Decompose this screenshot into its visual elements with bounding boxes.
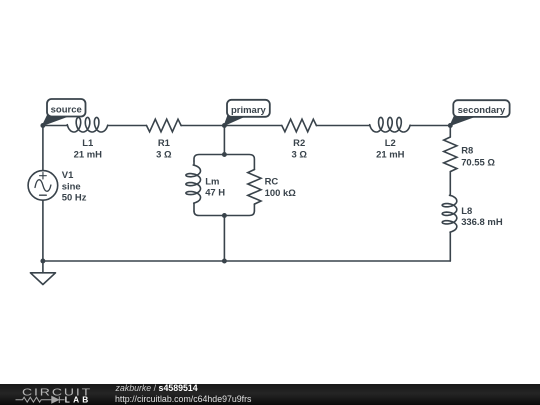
junction dot parallel bottom xyxy=(222,213,227,218)
wire R1 to primary node xyxy=(181,125,224,127)
svg-text:sine: sine xyxy=(62,181,81,192)
svg-text:L2: L2 xyxy=(385,138,396,149)
wire parallel block bottom rail xyxy=(194,211,254,216)
wire V1 to ground rail xyxy=(42,200,44,261)
wire L2 to secondary node xyxy=(410,125,450,127)
wire primary node down to parallel block xyxy=(223,126,225,155)
label R8 value xyxy=(461,146,495,169)
svg-text:source: source xyxy=(51,105,82,116)
label V1 value xyxy=(62,170,87,204)
label L8 value xyxy=(461,206,503,228)
wire secondary node down to R8 xyxy=(449,126,451,138)
junction dot primary node xyxy=(222,123,227,128)
svg-text:RC: RC xyxy=(265,177,279,188)
node label source xyxy=(42,99,85,126)
svg-text:zakburke / s4589514: zakburke / s4589514 xyxy=(115,383,198,393)
resistor R1 xyxy=(147,119,182,132)
wire parallel block to bottom rail xyxy=(223,216,225,262)
svg-text:R8: R8 xyxy=(461,146,473,157)
svg-text:primary: primary xyxy=(231,105,267,116)
label L2 value xyxy=(376,138,405,160)
node label secondary xyxy=(450,100,509,125)
wire R2 to L2 xyxy=(316,125,369,127)
svg-text:LAB: LAB xyxy=(65,394,92,404)
ground xyxy=(30,261,55,285)
resistor RC xyxy=(248,170,261,205)
wire L1 to R1 xyxy=(108,125,147,127)
svg-text:21 mH: 21 mH xyxy=(74,149,103,160)
svg-text:L1: L1 xyxy=(82,138,93,149)
junction dot bottom rail center xyxy=(222,259,227,264)
svg-text:http://circuitlab.com/c64hde97: http://circuitlab.com/c64hde97u9frs xyxy=(115,394,252,404)
svg-text:R2: R2 xyxy=(293,138,305,149)
resistor R8 xyxy=(444,137,457,172)
svg-text:47 H: 47 H xyxy=(205,188,225,199)
CircuitLab logo resistor-diode line xyxy=(16,396,65,403)
junction dot source node xyxy=(40,123,45,128)
svg-text:3 Ω: 3 Ω xyxy=(291,149,307,160)
svg-text:3 Ω: 3 Ω xyxy=(156,149,172,160)
label R1 value xyxy=(156,138,172,160)
svg-text:secondary: secondary xyxy=(458,105,506,116)
svg-text:21 mH: 21 mH xyxy=(376,149,405,160)
inductor L1 xyxy=(67,117,107,132)
node label primary xyxy=(224,100,270,126)
voltage source V1 xyxy=(28,171,58,201)
svg-text:70.55 Ω: 70.55 Ω xyxy=(461,157,495,168)
label L1 value xyxy=(74,138,103,160)
wire R8 to L8 xyxy=(449,172,451,196)
label Lm value xyxy=(205,176,225,198)
CircuitLab logo CIRCUIT xyxy=(22,386,92,398)
resistor R2 xyxy=(282,119,317,132)
svg-text:Lm: Lm xyxy=(205,176,219,187)
junction dot ground node xyxy=(40,259,45,264)
wire primary node to R2 xyxy=(224,125,281,127)
label RC value xyxy=(265,177,297,199)
wire top rail: source node to L1 xyxy=(43,125,67,127)
svg-text:R1: R1 xyxy=(158,138,170,149)
svg-text:50 Hz: 50 Hz xyxy=(62,193,87,204)
svg-text:L8: L8 xyxy=(461,206,472,217)
junction dot secondary node xyxy=(448,123,453,128)
svg-text:336.8 mH: 336.8 mH xyxy=(461,217,503,228)
wire bottom rail xyxy=(43,260,450,262)
junction dot parallel top xyxy=(222,152,227,157)
label R2 value xyxy=(291,138,307,160)
inductor L2 xyxy=(370,117,410,132)
inductor Lm xyxy=(186,161,201,203)
wire RC to bottom corner xyxy=(253,204,255,211)
svg-text:V1: V1 xyxy=(62,170,74,181)
wire Lm to bottom corner xyxy=(193,203,195,211)
svg-text:100 kΩ: 100 kΩ xyxy=(265,188,297,199)
footer bar xyxy=(0,384,540,405)
wire source node down to V1 xyxy=(42,126,44,171)
inductor L8 xyxy=(442,195,457,232)
wire L8 to bottom rail xyxy=(449,232,451,261)
wire parallel block top rail xyxy=(194,155,254,170)
